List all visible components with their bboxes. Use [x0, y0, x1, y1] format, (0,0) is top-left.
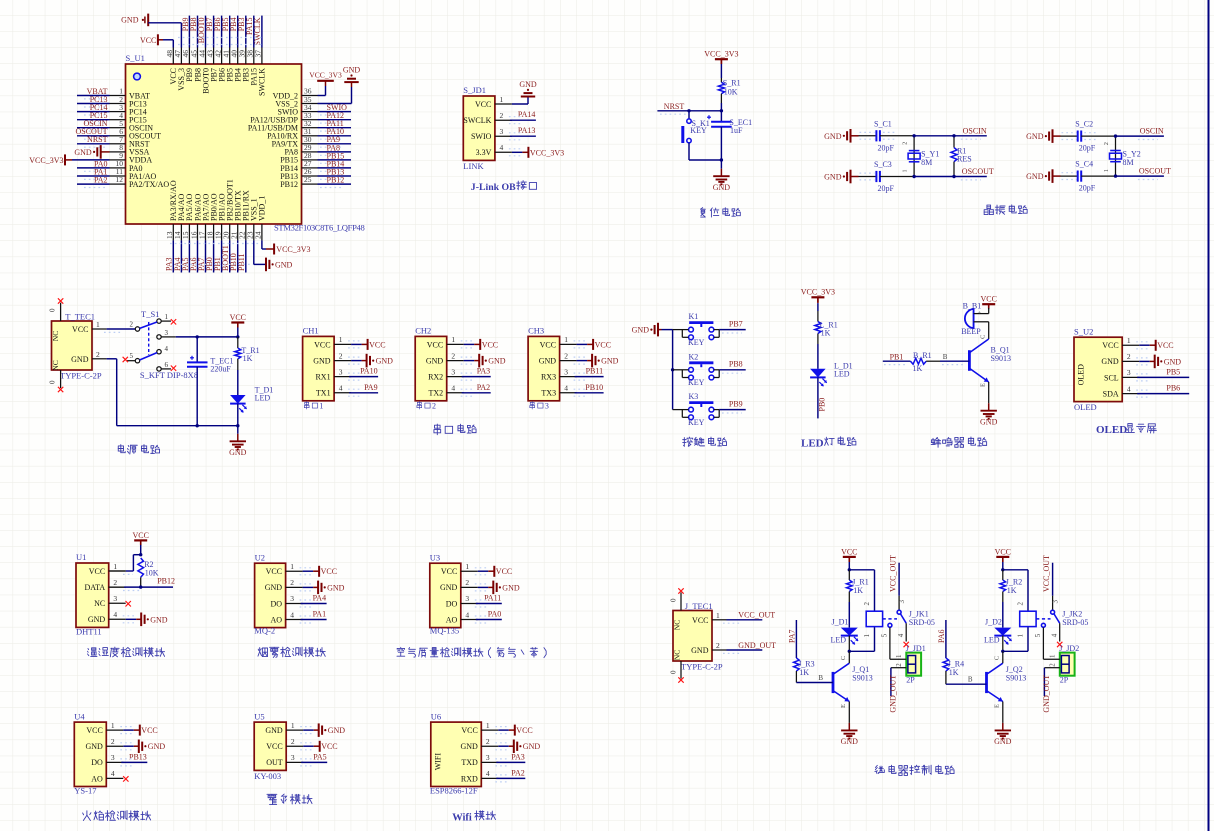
svg-text:C: C — [979, 335, 986, 339]
svg-text:2: 2 — [290, 578, 294, 587]
IC U1 left pins 1-12 with numbers and names — [110, 87, 170, 189]
wire switch pin3 to VCC rail — [161, 336, 238, 338]
svg-text:3: 3 — [290, 594, 294, 603]
resistor L_R1 1K — [815, 311, 838, 344]
junction crystal bottom — [912, 175, 915, 178]
svg-text:KEY: KEY — [688, 378, 705, 387]
connector J_JD1 2P body — [906, 644, 926, 685]
power VCC at CH2 pin 1 — [461, 339, 498, 350]
button ground bus wire — [672, 330, 674, 410]
IC U1 bottom pins 13-24 with numbers and names — [165, 179, 267, 240]
power ground at CH1 pin 2 — [348, 354, 393, 368]
net label PB5 at S_U2 pin 3 — [1136, 367, 1189, 381]
comment 串口1 — [304, 401, 323, 410]
svg-text:U2: U2 — [255, 552, 265, 562]
caption buzzer circuit — [931, 437, 941, 447]
svg-text:VCC: VCC — [995, 547, 1011, 556]
svg-text:1K: 1K — [949, 668, 959, 677]
svg-text:VCC: VCC — [841, 547, 857, 556]
svg-text:RXD: RXD — [461, 774, 478, 783]
svg-text:2: 2 — [903, 142, 909, 145]
svg-text:J_D1: J_D1 — [832, 617, 849, 626]
wire resistor to NRST node — [720, 103, 722, 111]
pin 1 VCC of U3 — [441, 562, 478, 576]
svg-text:1K: 1K — [913, 364, 923, 373]
net label OSCOUT wire — [1116, 167, 1172, 180]
svg-text:VCC_3V3: VCC_3V3 — [276, 245, 310, 254]
LED L_D1 — [810, 361, 853, 386]
svg-text:GND: GND — [713, 183, 731, 192]
power VCC_3V3 at U1 pin9 VDDA — [29, 154, 109, 165]
capacitor S_C2 20pF — [1061, 120, 1116, 153]
relay contact 5 terminal — [881, 623, 892, 659]
no connect at U4 pin 4 — [123, 776, 128, 781]
svg-text:2: 2 — [1048, 663, 1056, 667]
power VCC at U5 pin 2 — [300, 741, 337, 752]
svg-text:GND: GND — [824, 173, 842, 182]
junction crystal top — [1114, 134, 1117, 137]
svg-text:2P: 2P — [1060, 675, 1069, 684]
svg-text:220uF: 220uF — [210, 364, 231, 373]
svg-text:GND: GND — [71, 355, 89, 364]
svg-text:RX1: RX1 — [315, 373, 330, 382]
svg-text:AO: AO — [91, 774, 103, 783]
svg-text:GND: GND — [327, 583, 345, 592]
wire U1 pin35 VSS_2 to GND power — [318, 82, 352, 103]
svg-text:GND: GND — [121, 16, 139, 25]
svg-text:GND: GND — [601, 357, 619, 366]
power ground button circuit — [632, 323, 673, 337]
junction node NRST resistor capacitor — [720, 109, 723, 112]
svg-text:3: 3 — [486, 753, 490, 762]
power ground at U1 pin 4 — [123, 613, 168, 627]
svg-text:PA3: PA3 — [511, 752, 525, 761]
right pin net wires and labels SWIO PA12 PA11 PA10 PA9 PA8 PB15 PB14 PB13 PB12 — [318, 103, 352, 188]
svg-text:3: 3 — [339, 367, 343, 376]
pin 4 SDA of S_U2 — [1103, 384, 1140, 398]
svg-text:U1: U1 — [76, 552, 86, 562]
net label PA0 at U3 pin 4 — [475, 610, 502, 624]
pin 4 TX2 of CH2 — [429, 384, 464, 398]
svg-text:K2: K2 — [689, 352, 699, 361]
svg-text:GND: GND — [1164, 357, 1182, 366]
relay contact dashed link — [1036, 618, 1050, 620]
svg-text:VCC: VCC — [427, 340, 443, 349]
svg-text:OLED: OLED — [1077, 364, 1086, 386]
svg-text:2: 2 — [451, 351, 455, 360]
IC U1 top pins 48-37 with numbers and names — [165, 48, 267, 97]
resistor R1 RES feedback — [951, 136, 972, 177]
caption reset circuit — [700, 208, 705, 217]
svg-text:2: 2 — [113, 578, 117, 587]
svg-text:1: 1 — [903, 170, 909, 173]
net label PA6 base wire — [937, 620, 946, 658]
net label VCC_OUT relay contact 3 — [889, 555, 906, 610]
pin 3 OUT of U5 — [266, 753, 303, 767]
wire LED to bottom rail — [237, 404, 239, 426]
svg-text:LED: LED — [834, 369, 850, 378]
capacitor S_C4 20pF — [1061, 160, 1116, 193]
svg-text:KEY: KEY — [688, 338, 705, 347]
svg-text:0: 0 — [670, 598, 678, 602]
capacitor S_C3 20pF — [859, 160, 915, 193]
svg-text:VCC: VCC — [266, 742, 282, 751]
junction bottom rail GND — [236, 424, 239, 427]
svg-text:GND: GND — [994, 737, 1012, 746]
svg-text:1: 1 — [564, 335, 568, 344]
wire resistor to LED T_D1 — [237, 370, 239, 395]
wire resistor to LED — [817, 344, 819, 369]
svg-text:0: 0 — [670, 670, 678, 674]
pin 2 GND of U6 — [460, 737, 498, 751]
svg-text:J_D2: J_D2 — [985, 617, 1002, 626]
svg-text:PB11: PB11 — [586, 367, 604, 376]
relay contact 4 terminal no connect — [1051, 623, 1063, 647]
svg-text:OSCIN: OSCIN — [1140, 127, 1164, 136]
svg-text:U6: U6 — [431, 711, 441, 721]
svg-text:1: 1 — [165, 313, 169, 321]
junction R1 bottom — [952, 175, 955, 178]
svg-text:3: 3 — [451, 367, 455, 376]
svg-text:1K: 1K — [1007, 586, 1017, 595]
power ground above J-Link pin1 — [521, 96, 535, 98]
svg-text:VCC: VCC — [595, 340, 611, 349]
wire VCC to relay coil top — [849, 570, 874, 611]
svg-text:GND: GND — [440, 583, 458, 592]
junction node capacitor key GND — [720, 158, 723, 161]
LED J_D1 — [831, 602, 859, 644]
relay coil J_JK2 SRD-05 — [1016, 602, 1088, 638]
base wire with B label — [940, 353, 969, 365]
svg-text:B_R1: B_R1 — [913, 351, 932, 360]
svg-text:GND: GND — [85, 742, 103, 751]
wire DHT11 pin1 up to VCC — [109, 555, 141, 575]
svg-text:4: 4 — [165, 345, 169, 353]
power ground crystal bottom rail — [1026, 169, 1076, 183]
relay switch arm — [897, 610, 906, 623]
connector CH3 body — [528, 336, 560, 400]
svg-text:VCC: VCC — [230, 313, 246, 322]
no connect at U1 pin 3 — [126, 601, 131, 607]
wire U1 pin23 VSS_1 to GND power — [254, 240, 266, 264]
power ground at U5 pin 1 — [300, 723, 345, 737]
svg-text:3: 3 — [500, 127, 504, 136]
power VCC at S_U2 pin 1 — [1136, 340, 1173, 351]
junction node at key branch — [687, 109, 690, 112]
net label PA2 at U6 pin 4 — [495, 768, 525, 782]
svg-text:20pF: 20pF — [1079, 184, 1096, 193]
transistor J_Q1 S9013 — [833, 651, 873, 723]
svg-text:VCC: VCC — [482, 340, 498, 349]
svg-text:1: 1 — [1104, 169, 1110, 172]
svg-text:PA13: PA13 — [518, 126, 536, 135]
caption button circuit — [683, 437, 693, 446]
svg-text:GND_OUT: GND_OUT — [889, 675, 898, 713]
svg-text:MQ-135: MQ-135 — [430, 626, 459, 636]
svg-text:VCC: VCC — [461, 726, 477, 735]
svg-text:PB11: PB11 — [237, 254, 246, 272]
IC U1 body STM32F103C8T6 — [126, 64, 302, 224]
wire T_TEC1 pin2 GND to bottom rail — [92, 359, 238, 426]
svg-text:PA3: PA3 — [477, 367, 491, 376]
caption crystal circuit — [984, 205, 993, 214]
svg-text:OLED: OLED — [1074, 402, 1097, 412]
svg-text:OSCIN: OSCIN — [963, 126, 987, 135]
net label PB7 wire — [719, 319, 746, 333]
net label PB6 at S_U2 pin 4 — [1136, 384, 1189, 398]
power VCC_3V3 LED circuit — [801, 288, 835, 311]
svg-text:U4: U4 — [74, 711, 85, 721]
svg-text:1uF: 1uF — [730, 126, 743, 135]
net label PA3 at CH2 pin 3 — [461, 367, 491, 381]
net label PB11 at CH3 pin 3 — [574, 367, 604, 381]
base wire to transistor — [946, 676, 987, 685]
capacitor T_EC1 220uF polarized — [187, 337, 234, 426]
svg-text:NRST: NRST — [87, 135, 108, 144]
svg-text:J_JD1: J_JD1 — [906, 644, 926, 653]
junction VCC relay coil — [1001, 568, 1004, 571]
junction VCC relay coil — [848, 568, 851, 571]
pin 3 RX1 of CH1 — [315, 367, 351, 381]
svg-text:VCC: VCC — [89, 567, 105, 576]
resistor J_R1 1K — [847, 570, 869, 602]
svg-text:S_C4: S_C4 — [1075, 160, 1093, 169]
svg-text:1: 1 — [113, 562, 117, 571]
svg-text:YS-17: YS-17 — [74, 785, 96, 795]
pin 1 VCC of U2 — [266, 562, 303, 576]
svg-text:1K: 1K — [853, 586, 863, 595]
svg-text:VCC_3V3: VCC_3V3 — [530, 148, 564, 157]
power ground power-circuit — [229, 426, 247, 457]
capacitor S_EC1 1uF polarized — [707, 111, 752, 160]
net label VCC_OUT relay contact 3 — [1042, 555, 1059, 610]
svg-text:GND: GND — [691, 646, 709, 655]
svg-text:2: 2 — [291, 737, 295, 746]
capacitor S_C1 20pF — [859, 119, 915, 152]
pin 2 GND of CH2 — [426, 351, 464, 365]
transistor J_Q2 S9013 — [987, 651, 1027, 723]
pin 3 TXD of U6 — [461, 753, 498, 767]
svg-text:PA5: PA5 — [313, 752, 327, 761]
svg-text:U5: U5 — [254, 711, 264, 721]
svg-text:GND: GND — [502, 583, 520, 592]
svg-text:3: 3 — [291, 753, 295, 762]
svg-text:6: 6 — [165, 361, 169, 369]
svg-text:1: 1 — [895, 654, 903, 658]
svg-text:4: 4 — [290, 610, 294, 619]
svg-text:GND: GND — [460, 742, 478, 751]
pin 3 RX2 of CH2 — [428, 367, 464, 381]
switch pin6 stub no connect — [161, 366, 176, 371]
svg-text:GND: GND — [980, 418, 998, 427]
svg-text:C: C — [993, 656, 1000, 660]
svg-text:S_U1: S_U1 — [126, 53, 145, 63]
svg-text:PA2/TX/AO: PA2/TX/AO — [129, 180, 169, 189]
relay switch arm — [1051, 610, 1060, 623]
power VCC buzzer — [980, 295, 996, 310]
net label GND_OUT at J_JD1 pin2 — [889, 663, 907, 713]
svg-text:K3: K3 — [689, 392, 699, 401]
svg-text:J_JK2: J_JK2 — [1062, 610, 1082, 619]
svg-text:K1: K1 — [689, 312, 699, 321]
svg-text:S9013: S9013 — [991, 354, 1011, 363]
svg-text:DHT11: DHT11 — [76, 626, 102, 636]
net label OSCIN wire — [1116, 127, 1164, 140]
svg-text:PB13: PB13 — [129, 752, 147, 761]
svg-text:PB6: PB6 — [1166, 384, 1180, 393]
power VCC_3V3 below U1 right — [274, 244, 310, 255]
svg-text:1K: 1K — [821, 329, 831, 338]
svg-text:VCC: VCC — [1157, 341, 1173, 350]
connector J_JD2 2P body — [1059, 644, 1079, 685]
svg-text:GND: GND — [1026, 132, 1044, 141]
svg-text:4: 4 — [451, 384, 455, 393]
power ground crystal top rail — [1026, 129, 1076, 143]
pin 3 SCL of S_U2 — [1104, 368, 1139, 382]
svg-text:S9013: S9013 — [852, 673, 872, 682]
svg-text:VDD_1: VDD_1 — [258, 196, 267, 221]
switch pin5 stub no connect — [123, 357, 136, 362]
svg-text:GND: GND — [275, 260, 293, 269]
svg-text:GND: GND — [265, 726, 283, 735]
power ground at U1 pin47 VSS_3 — [121, 14, 181, 48]
caption power circuit — [118, 445, 125, 453]
svg-text:5: 5 — [130, 352, 134, 360]
pin 1 VCC of U4 — [86, 721, 123, 735]
svg-text:WIFI: WIFI — [433, 753, 442, 771]
power ground at U4 pin 2 — [120, 740, 165, 754]
svg-text:NRST: NRST — [664, 102, 685, 111]
svg-text:8M: 8M — [1123, 158, 1134, 167]
resistor R2 10K pullup — [138, 558, 159, 587]
svg-text:PB9: PB9 — [729, 399, 743, 408]
svg-text:KEY: KEY — [690, 126, 707, 135]
svg-text:+: + — [978, 310, 982, 317]
svg-text:20pF: 20pF — [1079, 144, 1096, 153]
svg-text:SDA: SDA — [1103, 389, 1119, 398]
svg-text:VCC: VCC — [72, 325, 88, 334]
junction VCC rail switch — [236, 335, 239, 338]
pin 2 GND of S_U2 — [1101, 352, 1139, 366]
caption air quality module — [397, 647, 405, 656]
resistor J_R3 1K base — [794, 658, 815, 683]
wire T_TEC1 pin1 VCC to switch — [92, 329, 135, 332]
key S_K1 KEY push button — [683, 111, 722, 160]
pin 4 AO of U2 — [271, 610, 303, 624]
net label PB9 wire — [719, 399, 746, 413]
svg-text:NC: NC — [94, 599, 105, 608]
resistor S_R1 10K — [718, 78, 740, 103]
svg-text:2P: 2P — [906, 675, 915, 684]
net label PA10 at CH1 pin 3 — [348, 367, 378, 381]
svg-text:1: 1 — [111, 721, 115, 730]
svg-text:AO: AO — [446, 615, 458, 624]
svg-text:1: 1 — [716, 611, 720, 620]
bottom pin net wires and labels PA3 PA4 PA5 PA6 PA7 PB0 PB1 BOOT1 PB10 PB11 — [165, 240, 247, 272]
svg-text:STM32F103C8T6_LQFP48: STM32F103C8T6_LQFP48 — [274, 223, 364, 233]
top pin net wires and labels PB9 PB8 BOOT0 PB7 PB6 PB5 PB4 PB3 PA15 SWCLK — [181, 16, 262, 48]
svg-text:OUT: OUT — [266, 758, 283, 767]
svg-text:2: 2 — [1104, 142, 1110, 145]
svg-text:DATA: DATA — [84, 583, 105, 592]
J_TEC1 shell stub top no connect — [670, 588, 684, 610]
svg-text:C: C — [840, 656, 847, 660]
wire coil bottom to collector junction — [849, 627, 874, 652]
net label PA1 at U2 pin 4 — [300, 610, 327, 624]
power ground relay 1 — [848, 723, 850, 731]
svg-text:GND: GND — [150, 615, 168, 624]
junction VCC pullup R2 — [139, 553, 142, 556]
svg-text:1: 1 — [486, 721, 490, 730]
svg-text:VCC: VCC — [321, 742, 337, 751]
net label PA4 at U2 pin 3 — [300, 594, 327, 608]
resistor J_R4 1K base — [943, 658, 964, 684]
J_TEC1 shell stub bottom no connect — [670, 661, 684, 683]
svg-text:VCC: VCC — [140, 36, 156, 45]
svg-text:CH3: CH3 — [528, 326, 544, 336]
svg-text:VCC: VCC — [980, 295, 996, 304]
svg-text:OLED: OLED — [1096, 424, 1127, 436]
power VCC_3V3 reset circuit — [704, 50, 738, 78]
pin 1 GND of U5 — [265, 721, 303, 735]
svg-text:LED: LED — [831, 635, 847, 644]
pin 4 AO of U3 — [446, 610, 478, 624]
power ground crystal top rail — [824, 129, 874, 143]
svg-text:VCC: VCC — [1102, 341, 1118, 350]
svg-text:J_TEC1: J_TEC1 — [685, 601, 713, 611]
pin 4 GND of U1 — [88, 610, 126, 624]
svg-text:3: 3 — [564, 367, 568, 376]
wire LED to collector junction — [1002, 636, 1004, 652]
key K3 KEY push button — [673, 392, 720, 427]
wire U1 pin24 VDD_1 to VCC_3V3 power — [262, 240, 274, 249]
svg-text:NC: NC — [51, 360, 60, 370]
net label PA14 at S_JD1 pin 2 — [509, 110, 536, 124]
svg-text:4: 4 — [500, 143, 504, 152]
svg-text:1: 1 — [290, 562, 294, 571]
svg-text:2: 2 — [465, 578, 469, 587]
svg-text:LINK: LINK — [463, 161, 484, 171]
junction crystal top — [912, 134, 915, 137]
svg-text:DO: DO — [91, 758, 103, 767]
svg-text:Wifi: Wifi — [452, 812, 472, 823]
wire DHT11 pin2 DATA with net label PB12 — [109, 577, 175, 591]
svg-text:VCC: VCC — [540, 340, 556, 349]
svg-text:S_C3: S_C3 — [874, 160, 892, 169]
svg-text:RES: RES — [957, 154, 972, 163]
wire LED to collector junction — [848, 636, 850, 652]
power VCC at CH1 pin 1 — [348, 339, 385, 350]
base wire to transistor — [796, 674, 833, 683]
wire coil bottom to collector junction — [1003, 627, 1028, 652]
pin 1 VCC of S_JD1 — [475, 95, 512, 109]
svg-text:20pF: 20pF — [878, 184, 895, 193]
pin 2 GND of U2 — [265, 578, 303, 592]
caption serial port circuit — [434, 424, 441, 435]
power VCC_3V3 at S_JD1 pin 4 — [509, 147, 564, 158]
svg-text:SWIO: SWIO — [471, 132, 492, 141]
svg-text:GND: GND — [74, 148, 92, 157]
svg-text:PB7: PB7 — [729, 319, 743, 328]
net label PB10 at CH3 pin 4 — [574, 383, 604, 396]
svg-text:PA14: PA14 — [518, 110, 536, 119]
power ground relay 2 — [1002, 723, 1004, 731]
wire U1 pin36 VDD_2 to VCC_3V3 power — [318, 81, 326, 96]
relay contact 4 terminal no connect — [897, 623, 909, 647]
svg-text:GND: GND — [376, 357, 394, 366]
svg-text:KY-003: KY-003 — [254, 771, 281, 781]
svg-text:VCC_3V3: VCC_3V3 — [801, 288, 835, 297]
